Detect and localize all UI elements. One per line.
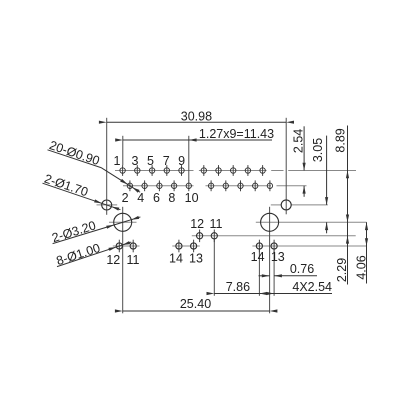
dim line 7.86 / 4X2.54 [214, 293, 332, 295]
pad hole 11 left [130, 243, 136, 249]
svg-text:14: 14 [169, 251, 183, 265]
pin hole P8 left [171, 183, 176, 188]
tick P7 left [166, 165, 168, 176]
pin hole P2 left [127, 183, 132, 188]
pad hole 12 left [116, 243, 122, 249]
wire mounting hole M2 centerline [256, 221, 367, 223]
leader 20-D0.90 underline [48, 150, 102, 168]
tick 11 center [213, 230, 215, 243]
svg-text:6: 6 [153, 191, 160, 205]
arrow 30.98 left [99, 121, 107, 124]
wire pads 12-11 row line [192, 235, 356, 237]
pin hole P10 left [186, 183, 191, 188]
svg-text:13: 13 [189, 251, 203, 265]
pin hole right bottom 5 [267, 183, 272, 188]
svg-text:8.89: 8.89 [333, 128, 347, 152]
pin hole P3 left [135, 168, 140, 173]
svg-text:3.05: 3.05 [311, 138, 325, 162]
pad hole 14 center [176, 243, 182, 249]
svg-text:4: 4 [137, 191, 144, 205]
wire top pin row ext a [271, 170, 283, 172]
tick right bottom 2 [225, 180, 227, 191]
tick P5 left [151, 165, 153, 176]
svg-text:0.76: 0.76 [290, 262, 314, 276]
tick 14 right [258, 240, 260, 253]
arrow 2-D3.20 entry [106, 225, 114, 229]
dim line 25.40 [123, 310, 270, 312]
arrow 11.43 right [189, 138, 197, 141]
pin hole right top 5 [260, 168, 265, 173]
leader 2-D1.70 [43, 183, 121, 209]
pin hole right bottom 1 [208, 183, 213, 188]
arrow 8-D1.00 entry [108, 247, 116, 251]
dim line 2.54 lower [303, 186, 305, 197]
tick P1 left [122, 165, 124, 176]
arrow 2-D1.70 exit [111, 207, 119, 211]
pin hole right bottom 2 [223, 183, 228, 188]
tick right top 5 [262, 165, 264, 176]
wire bottom pin row ext [277, 185, 307, 187]
svg-text:13: 13 [271, 250, 285, 264]
arrow 20-D0.90 entry [120, 179, 128, 185]
pad hole 13 right [271, 243, 277, 249]
arrow 0.76 right [274, 274, 282, 277]
arrow 30.98 right [286, 121, 294, 124]
wire centerline mounting M1 / dim 25.40 left [122, 207, 124, 313]
mounting hole M1 (3.20) [114, 213, 132, 231]
arrow 11.43 left [115, 138, 123, 141]
arrow 0.76 left [262, 274, 270, 277]
arrow 7.86 left [207, 292, 215, 295]
arrow 2.54 top [303, 163, 306, 171]
svg-text:10: 10 [185, 191, 199, 205]
arrow 25.40 right [270, 309, 278, 312]
tick 13 center [193, 240, 195, 253]
tick 11 left [132, 240, 134, 253]
pad hole 14 right [256, 243, 262, 249]
arrow 3.05 top [325, 197, 328, 205]
svg-text:25.40: 25.40 [180, 297, 211, 311]
tick P8 left [173, 180, 175, 191]
arrow 25.40 left [115, 309, 123, 312]
pin hole right top 2 [216, 168, 221, 173]
wire ext line hole J2 / dim 30.98 right [285, 118, 287, 215]
wire top pin row (right) [199, 170, 267, 172]
wire hole J2 crosshair a [271, 204, 281, 206]
arrow 4X2.54 right outside [266, 292, 274, 295]
svg-text:9: 9 [178, 154, 185, 168]
tick right top 2 [218, 165, 220, 176]
wire top pin row ext b [288, 170, 356, 172]
pin hole right bottom 3 [238, 183, 243, 188]
arrow 7.86 right [259, 292, 267, 295]
tick P2 left [129, 180, 131, 191]
pad hole 11 center [211, 233, 217, 239]
wire ext line hole J1 / dim 30.98 left [106, 118, 108, 215]
pad hole 12 center [197, 233, 203, 239]
wire bottom pin row (right) [206, 185, 272, 187]
pin hole P9 left [179, 168, 184, 173]
svg-text:11: 11 [210, 217, 223, 231]
svg-text:2: 2 [122, 191, 129, 205]
svg-text:1: 1 [114, 154, 121, 168]
arrow 8.89 bottom / 2.29 top [346, 215, 349, 223]
leader 8-D1.00 [57, 242, 131, 267]
wire hole J1 crosshair [97, 204, 118, 206]
tick 12 center [199, 230, 201, 243]
wire ext line pad 11 dim 7.86 [213, 239, 215, 296]
dim line 3.05 lower [326, 222, 328, 233]
leader 20-D0.90 [101, 168, 140, 193]
pin hole right bottom 4 [253, 183, 258, 188]
wire pads 12-11 row line left [113, 245, 140, 247]
tick P3 left [136, 165, 138, 176]
svg-text:14: 14 [251, 250, 265, 264]
arrow 2-D1.70 entry [94, 199, 102, 203]
arrow 2.54 bottom [303, 186, 306, 194]
tick right bottom 4 [254, 180, 256, 191]
svg-text:12: 12 [106, 253, 120, 267]
svg-text:4.06: 4.06 [355, 255, 369, 279]
svg-text:30.98: 30.98 [181, 109, 212, 123]
dim line 30.98 [107, 121, 287, 123]
svg-text:2.54: 2.54 [291, 129, 305, 153]
leader 2-D3.20 [53, 217, 141, 244]
wire pads 14-13 row line center [172, 245, 200, 247]
wire pads 14-13 row line right [252, 245, 366, 247]
dim line 8.89 / 2.29 [347, 126, 349, 285]
wire ext line pin1 dim 11.43 [122, 136, 124, 165]
wire mounting hole M1 centerline [109, 221, 137, 223]
tick 12 left [118, 240, 120, 253]
svg-text:4X2.54: 4X2.54 [292, 280, 332, 294]
wire ext line pin10 dim 11.43 [188, 136, 190, 181]
pin hole P6 left [157, 183, 162, 188]
pin hole right top 4 [245, 168, 250, 173]
arrow 20-D0.90 exit [132, 187, 140, 193]
svg-text:1.27x9=11.43: 1.27x9=11.43 [199, 127, 274, 141]
arrow 2.29 bottom [346, 236, 349, 244]
svg-text:8: 8 [168, 191, 175, 205]
arrow 4.06 bottom [365, 238, 368, 246]
tick P6 left [158, 180, 160, 191]
tick P10 left [188, 180, 190, 191]
pin hole right top 3 [231, 168, 236, 173]
wire ext line pad 13 dim 0.76/2.54 [273, 249, 275, 296]
mounting hole M2 (3.20) [261, 213, 279, 231]
dim line 0.76 approach [259, 275, 270, 277]
svg-text:3: 3 [132, 154, 139, 168]
wire top pin row (left) [115, 170, 194, 172]
pin hole P1 left [120, 168, 125, 173]
pin hole right top 1 [201, 168, 206, 173]
locating hole J2 (1.70) [281, 200, 291, 210]
arrow 3.05 bottom [325, 222, 328, 230]
wire bottom pin row (left) [123, 185, 194, 187]
arrow 8-D1.00 exit [122, 241, 130, 245]
wire centerline mounting M2 / dim 25.40 right [269, 207, 271, 313]
arrow 4.06 top [365, 222, 368, 230]
tick P9 left [181, 165, 183, 176]
svg-text:7.86: 7.86 [226, 280, 250, 294]
tick 13 right [273, 240, 275, 253]
svg-text:12: 12 [190, 217, 204, 231]
dim line 4.06 [366, 222, 368, 283]
tick right top 4 [247, 165, 249, 176]
svg-text:2.29: 2.29 [335, 258, 349, 282]
pin hole P4 left [142, 183, 147, 188]
tick right top 3 [232, 165, 234, 176]
pin hole P7 left [164, 168, 169, 173]
pad hole 13 center [191, 243, 197, 249]
arrow 8.89 top [346, 171, 349, 179]
tick 14 center [178, 240, 180, 253]
wire hole J2 crosshair b [291, 204, 328, 206]
dim line 0.76 underline [274, 275, 317, 277]
svg-text:7: 7 [163, 154, 170, 168]
dim line 3.05 upper [326, 136, 328, 205]
svg-text:5: 5 [147, 154, 154, 168]
wire ext line pad 14 dim 7.86/2.54 [258, 249, 260, 296]
pin hole P5 left [149, 168, 154, 173]
locating hole J1 (1.70) [102, 200, 112, 210]
dim line 2.54 upper [303, 126, 305, 170]
tick right bottom 1 [210, 180, 212, 191]
tick P4 left [144, 180, 146, 191]
arrow 2-D3.20 exit [131, 216, 139, 220]
dim line 1.27x9=11.43 [123, 139, 272, 141]
svg-text:11: 11 [127, 253, 140, 267]
tick right bottom 3 [240, 180, 242, 191]
tick right bottom 5 [269, 180, 271, 191]
tick right top 1 [203, 165, 205, 176]
